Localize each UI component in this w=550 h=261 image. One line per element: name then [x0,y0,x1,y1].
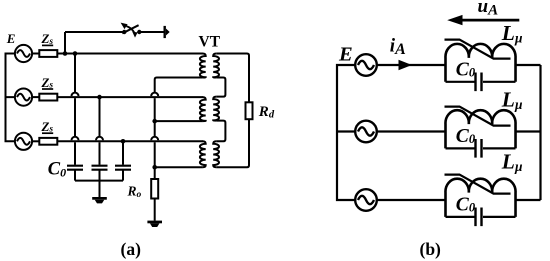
label Rd [258,104,275,121]
wire secondary 2 to secondary 3 [216,121,225,142]
label Zs phase B [41,75,54,90]
label Ro [127,183,142,200]
inductor Lmu branch 3 [445,179,515,217]
wire right bus (b) [539,65,541,200]
svg-text:(a): (a) [121,239,142,259]
switch wire left [65,31,124,33]
switch right contact [137,30,141,34]
resistor Rd [246,102,253,119]
impedance Zs phase C [39,138,57,145]
junction node neutral / primary 2 [152,119,157,124]
AC source phase B (a) [15,89,32,106]
wire source B to Zs [32,96,39,98]
transformer VT primary winding 2 [200,97,206,121]
wire primary 3 bottom to neutral [155,166,203,168]
wire branch 1 in [377,64,446,66]
inductor Lmu branch 2 [445,110,515,148]
AC source phase C (b) [355,189,377,211]
ground (Ro) [147,221,162,227]
wire phase B [57,96,203,98]
terminal bar [163,26,165,38]
wire phase C [57,140,203,142]
capacitor C0 branch 1 [446,81,516,83]
wire capacitor bus [75,181,123,197]
junction node phase C / capacitor riser [121,139,126,144]
wire source A to Zs [32,53,39,55]
label C0 (a) [48,160,66,180]
wire primary 1 bottom to neutral [155,78,203,80]
label C0 branch 2 [456,126,476,147]
svg-text:VT: VT [199,33,221,50]
junction node phase B / capacitor riser [97,95,102,100]
wire neutral [151,80,158,180]
switch left contact [122,30,126,34]
current arrow iA [399,60,412,71]
capacitor C0 branch 3 [446,216,516,218]
capacitor C0 phase C riser wire [122,141,124,164]
switch blade [122,25,138,33]
label iA [390,35,406,58]
voltage arrow uA [461,19,519,22]
wire secondary 3 bottom to Rd [216,119,249,167]
wire secondary 1 top to Rd [216,54,249,103]
wire left bus (a) [6,54,15,142]
resistor Ro [151,179,158,199]
label Lmu branch 2 [501,87,523,112]
wire switch riser [64,32,66,54]
label uA [478,0,499,19]
capacitor C0 branch 2 [446,147,516,149]
junction node phase A / switch riser [63,51,68,56]
wire Ro to ground [154,199,156,221]
junction node phase A / capacitor riser [73,51,78,56]
saturation line branch 2 [445,107,511,126]
inductor Lmu branch 1 [445,44,515,82]
wire branch 3 in [377,199,446,201]
wire source C to Zs [32,140,39,142]
label C0 branch 1 [456,60,476,81]
AC source phase A (a) [15,45,32,62]
transformer VT secondary winding 1 [213,54,219,78]
ground (capacitors) [92,197,107,203]
svg-text:E: E [6,31,16,46]
label Lmu branch 1 [501,21,523,46]
svg-text:E: E [338,43,353,65]
svg-text:(b): (b) [420,239,442,259]
capacitor C0 phase B riser wire [96,97,103,165]
transformer VT secondary winding 2 [213,97,219,121]
label C0 branch 3 [456,195,476,216]
capacitor C0 phase B [92,166,108,170]
transformer VT primary winding 1 [200,54,206,78]
transformer VT primary winding 3 [200,141,206,167]
svg-text:uA: uA [478,0,499,19]
wire branch 2 in [377,130,446,132]
transformer VT secondary winding 3 [213,141,219,167]
label Zs phase C [41,119,54,134]
junction node neutral / primary 3 [152,165,157,170]
wire phase A [57,53,203,55]
switch motion arc [126,26,134,32]
switch motion arrowhead lower [132,32,137,38]
terminal arrow [166,29,170,36]
AC source phase C (a) [15,133,32,150]
capacitor C0 phase C [115,166,131,170]
wire primary 2 bottom to neutral [155,120,203,122]
switch wire right [139,31,163,33]
AC source phase A (b) [355,54,377,76]
label Lmu branch 3 [501,150,523,175]
capacitor C0 phase A riser wire [72,54,79,165]
wire branch 3 out [516,199,541,201]
switch motion arrowhead upper-left [121,23,128,30]
wire branch 1 out [516,64,541,66]
impedance Zs phase B [39,94,57,101]
AC source phase B (b) [355,121,377,143]
saturation line branch 3 [445,175,511,194]
capacitor C0 phase A [67,166,83,170]
wire branch 2 out [516,130,541,132]
wire left bus (b) [337,65,355,200]
label Zs phase A [41,31,54,46]
impedance Zs phase A [39,50,57,57]
wire secondary 1 to secondary 2 [216,78,225,97]
saturation line branch 1 [445,40,511,59]
